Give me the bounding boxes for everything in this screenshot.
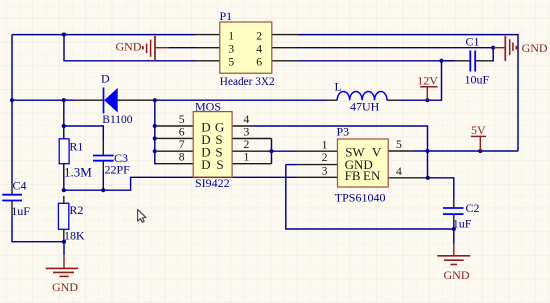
svg-text:GND: GND	[444, 268, 470, 282]
svg-text:C2: C2	[466, 201, 480, 215]
svg-text:1uF: 1uF	[11, 204, 30, 218]
svg-text:C4: C4	[13, 178, 27, 192]
svg-text:2: 2	[244, 138, 250, 151]
svg-text:B1100: B1100	[102, 114, 132, 126]
svg-text:2: 2	[256, 29, 262, 42]
svg-text:R2: R2	[69, 203, 83, 217]
svg-text:8: 8	[179, 151, 185, 164]
svg-text:22PF: 22PF	[105, 163, 131, 177]
svg-text:D: D	[201, 157, 210, 172]
svg-text:10uF: 10uF	[465, 72, 490, 86]
svg-text:5V: 5V	[471, 123, 486, 137]
svg-text:L: L	[335, 79, 342, 93]
svg-text:EN: EN	[363, 168, 381, 183]
svg-text:C1: C1	[466, 35, 480, 49]
svg-text:5: 5	[228, 56, 234, 69]
svg-text:47UH: 47UH	[350, 100, 380, 114]
svg-text:P3: P3	[337, 124, 350, 138]
svg-text:12V: 12V	[417, 74, 438, 88]
svg-text:TPS61040: TPS61040	[335, 191, 386, 205]
svg-text:GND: GND	[52, 280, 78, 294]
svg-text:1: 1	[322, 138, 328, 151]
svg-text:1: 1	[244, 151, 250, 164]
svg-text:2: 2	[322, 151, 328, 164]
svg-text:MOS: MOS	[195, 100, 221, 114]
svg-text:5: 5	[396, 138, 402, 151]
svg-text:D: D	[101, 71, 110, 85]
svg-text:3: 3	[322, 164, 328, 177]
svg-text:S: S	[216, 157, 223, 172]
svg-text:FB: FB	[345, 168, 361, 183]
svg-text:P1: P1	[220, 9, 233, 23]
svg-text:6: 6	[179, 125, 185, 138]
svg-text:4: 4	[396, 165, 402, 178]
svg-text:R1: R1	[69, 139, 83, 153]
svg-text:5: 5	[179, 113, 185, 126]
svg-text:4: 4	[256, 42, 262, 55]
svg-text:3: 3	[244, 125, 250, 138]
svg-text:V: V	[372, 145, 382, 160]
svg-text:Header 3X2: Header 3X2	[220, 76, 275, 88]
svg-text:3: 3	[228, 42, 234, 55]
svg-text:GND: GND	[116, 40, 142, 54]
svg-text:1: 1	[228, 29, 234, 42]
svg-text:6: 6	[256, 56, 262, 69]
svg-text:4: 4	[244, 113, 250, 126]
svg-text:1uF: 1uF	[453, 217, 472, 231]
svg-text:GND: GND	[522, 41, 548, 55]
svg-text:7: 7	[179, 138, 185, 151]
svg-text:SI9422: SI9422	[195, 176, 230, 190]
svg-text:1.3M: 1.3M	[64, 165, 92, 180]
svg-text:18K: 18K	[64, 228, 85, 242]
